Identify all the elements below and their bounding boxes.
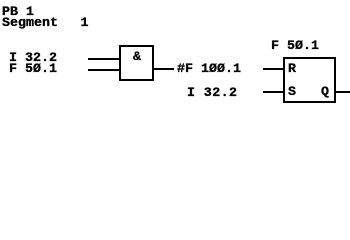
segment number 1 — [81, 17, 89, 30]
wire AND input 2 — [88, 69, 119, 71]
segment header — [2, 17, 58, 30]
AND gate symbol & — [133, 51, 141, 64]
flip-flop label F 50.1 — [271, 40, 319, 53]
pin S — [288, 86, 296, 99]
block title PB 1 — [2, 6, 34, 19]
operand label #F 100.1 — [177, 63, 241, 76]
pin R — [288, 63, 296, 76]
operand label F 50.1 (AND input 2) — [9, 63, 57, 76]
pin Q — [321, 86, 329, 99]
wire to S input — [263, 91, 283, 93]
SR flip-flop box — [283, 57, 336, 103]
operand label I 32.2 (AND input 1) — [9, 52, 57, 65]
wire Q output — [336, 91, 350, 93]
wire to R input — [263, 68, 283, 70]
wire AND output — [154, 68, 174, 70]
AND gate box — [119, 45, 154, 81]
wire AND input 1 — [88, 58, 119, 60]
operand label I 32.2 (S input) — [187, 87, 237, 100]
